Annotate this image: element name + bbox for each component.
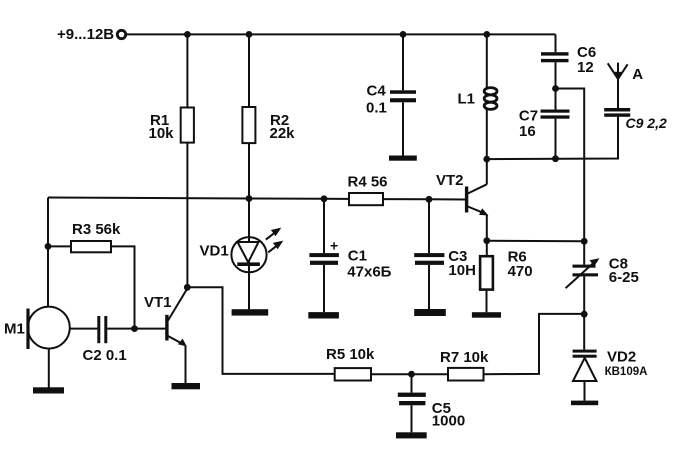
svg-text:C9 2,2: C9 2,2 — [626, 115, 667, 131]
wire top supply rail — [127, 33, 556, 35]
wire C2 to VT1 base — [107, 328, 165, 330]
wire microphone to ground — [48, 349, 50, 388]
node C8/VD2 — [581, 311, 588, 318]
ground VD2 — [571, 401, 598, 406]
svg-text:R3 56k: R3 56k — [72, 221, 121, 238]
node bias-VD1 — [246, 195, 253, 202]
svg-text:+9...12В: +9...12В — [57, 26, 114, 43]
transistor VT1 — [144, 289, 187, 347]
varicap VD2 — [573, 314, 648, 400]
capacitor C6 — [541, 34, 596, 88]
capacitor C2 — [83, 316, 127, 364]
wire base bias line — [48, 198, 465, 200]
antenna A — [608, 63, 644, 108]
capacitor C9 — [604, 108, 667, 131]
ground C1 — [308, 312, 339, 318]
wire microphone output — [70, 328, 98, 330]
power terminal +9...12V — [57, 26, 126, 43]
ground C5 — [396, 432, 427, 438]
svg-text:C4: C4 — [367, 82, 387, 99]
wire VT2 collector up — [486, 159, 488, 184]
wire R1 column — [186, 34, 188, 287]
node rail-R2 — [246, 31, 253, 38]
transistor VT2 — [436, 172, 488, 215]
capacitor C3 — [414, 199, 476, 309]
ground C3 — [414, 309, 446, 316]
svg-text:C2 0.1: C2 0.1 — [83, 347, 127, 364]
svg-text:470: 470 — [508, 263, 533, 280]
svg-text:VT1: VT1 — [144, 294, 172, 311]
node C6-C7 — [552, 85, 559, 92]
svg-text:10H: 10H — [448, 262, 476, 279]
wire R7 up to varicap node — [484, 314, 585, 374]
LED VD1 — [200, 228, 284, 273]
svg-text:0.1: 0.1 — [366, 99, 387, 116]
node rail-C4 — [400, 31, 407, 38]
variable capacitor C8 — [566, 241, 639, 314]
svg-text:1000: 1000 — [432, 413, 465, 430]
resistor R6 — [480, 241, 533, 313]
wire collector line to antenna — [487, 117, 618, 159]
capacitor C5 — [398, 374, 465, 432]
inductor L1 — [458, 34, 498, 159]
svg-text:+: + — [330, 238, 338, 254]
svg-text:R4 56: R4 56 — [348, 173, 388, 190]
node C5 — [408, 371, 415, 378]
svg-text:16: 16 — [519, 123, 536, 140]
node emitter-C8 — [581, 238, 588, 245]
wire VT2 emitter down — [486, 215, 488, 241]
node emitter/R6 — [483, 237, 490, 244]
node VT1 collector — [184, 284, 191, 291]
wire R3 right to base junction — [111, 246, 135, 328]
node rail-R1 — [184, 31, 191, 38]
resistor R3 — [48, 221, 121, 253]
capacitor C4 — [366, 34, 416, 155]
svg-text:22k: 22k — [270, 125, 296, 142]
svg-text:VD1: VD1 — [200, 242, 229, 259]
ground C4 — [389, 156, 417, 161]
svg-text:C1: C1 — [348, 247, 367, 264]
node bias-C1 — [321, 195, 328, 202]
wire VT1 emitter to ground — [185, 346, 187, 384]
node collector/L1 — [483, 156, 490, 163]
svg-text:10k: 10k — [149, 125, 175, 142]
svg-text:M1: M1 — [4, 320, 25, 337]
node bias-C3 — [426, 196, 433, 203]
svg-text:VT2: VT2 — [436, 172, 464, 189]
wire R2/VD1 column — [248, 34, 250, 309]
svg-text:A: A — [632, 66, 643, 83]
wire emitter line — [487, 240, 584, 243]
ground VD1 — [232, 309, 269, 315]
ground M1 — [33, 387, 64, 393]
svg-text:47x6Б: 47x6Б — [347, 263, 391, 280]
resistor R5 — [326, 346, 375, 381]
svg-text:12: 12 — [577, 59, 594, 76]
svg-text:VD2: VD2 — [607, 348, 636, 365]
svg-text:R7 10k: R7 10k — [440, 349, 489, 366]
node C7-bottom — [552, 155, 559, 162]
capacitor C7 — [519, 89, 570, 159]
node rail-L1 — [483, 31, 490, 38]
ground VT1 — [172, 383, 201, 389]
ground R6 — [472, 312, 501, 318]
svg-text:КВ109А: КВ109А — [605, 366, 648, 378]
wire R5 to R7 — [371, 373, 448, 375]
wire left branch to microphone — [47, 198, 49, 307]
node base VT1 — [131, 325, 138, 332]
wire modulation path — [187, 287, 334, 374]
node R3-left — [45, 243, 52, 250]
svg-text:L1: L1 — [458, 90, 476, 107]
resistor R4 — [348, 173, 388, 205]
svg-text:6-25: 6-25 — [609, 269, 639, 286]
resistor R1 — [149, 108, 194, 143]
microphone M1 — [4, 307, 70, 349]
svg-text:R5 10k: R5 10k — [326, 346, 375, 363]
resistor R7 — [440, 349, 489, 381]
capacitor C1 — [309, 199, 391, 312]
resistor R2 — [242, 107, 295, 143]
wire C6/C7 junction to C8 — [556, 89, 585, 242]
